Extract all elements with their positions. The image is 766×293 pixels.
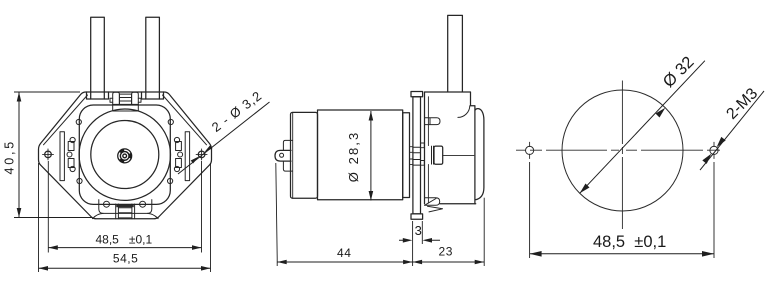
plate top cap bbox=[411, 92, 423, 97]
bottom rollers bbox=[104, 201, 110, 207]
tube right bbox=[146, 17, 160, 99]
dim 44 line bbox=[277, 261, 484, 263]
bottom clamp dark band bbox=[116, 205, 134, 207]
svg-text:Ø 32: Ø 32 bbox=[660, 53, 698, 91]
svg-text:44: 44 bbox=[337, 246, 352, 260]
left mount hole bbox=[526, 146, 534, 154]
tube seat right bbox=[142, 92, 164, 99]
svg-text:Ø 28,3: Ø 28,3 bbox=[346, 131, 361, 183]
top clamp ladder bbox=[119, 94, 131, 104]
right pin top bbox=[425, 118, 441, 125]
chamfer line upper-right bbox=[163, 95, 207, 145]
top clamp right post bbox=[132, 92, 139, 111]
chamfer line upper-left bbox=[44, 95, 88, 145]
face plate rounded square bbox=[79, 105, 170, 204]
head body bbox=[425, 92, 475, 204]
head inner fillet bbox=[458, 106, 470, 118]
bottom roller block bbox=[99, 200, 152, 214]
dim 48,5 line bbox=[48, 247, 201, 249]
corner screw TR bbox=[168, 119, 173, 124]
ext line 23 right bbox=[483, 198, 485, 266]
corner screw BR bbox=[168, 178, 173, 183]
plate rungs bbox=[413, 147, 421, 165]
right side rail bbox=[185, 132, 189, 181]
dim 40,5 line bbox=[18, 92, 20, 218]
bottom clamp bbox=[116, 204, 135, 219]
right ear hole crosshair bbox=[196, 149, 207, 160]
dim 54,5 extension lines bbox=[39, 163, 211, 272]
snap tab bbox=[428, 206, 443, 212]
terminal hole bbox=[280, 153, 284, 157]
plate right tabs bbox=[421, 143, 425, 148]
horizontal center line bbox=[516, 149, 720, 151]
outer circle bbox=[79, 109, 170, 200]
head inner wall bbox=[427, 97, 429, 203]
left side rail bbox=[60, 132, 64, 181]
right pin bottom bbox=[425, 198, 440, 206]
plate left studs bbox=[410, 147, 413, 153]
dim 40,5 extension lines bbox=[14, 92, 92, 218]
dimension drawing: left view bbox=[14, 92, 270, 272]
ext line 3 right bbox=[421, 221, 423, 244]
dim 28,3 line bbox=[370, 111, 372, 201]
brush cap top bbox=[283, 140, 292, 150]
shaft coupling bbox=[434, 146, 443, 164]
plate bottom cap bbox=[411, 214, 423, 219]
leader 2-O3,2 bbox=[178, 102, 270, 174]
head cover bbox=[475, 106, 484, 204]
dim 3 arrows bbox=[399, 239, 440, 241]
shaft center line bbox=[443, 154, 474, 156]
dim 48,5 right line bbox=[530, 253, 714, 255]
right ear hole bbox=[198, 151, 205, 158]
right clamp yoke bbox=[174, 137, 182, 171]
ext line middle (plate left) bbox=[412, 221, 414, 266]
tube left bbox=[91, 17, 105, 99]
dia 32 dim line bbox=[580, 61, 705, 194]
dim 54,5 line bbox=[39, 267, 211, 269]
svg-text:48,5 ±0,1: 48,5 ±0,1 bbox=[593, 233, 666, 251]
mounting plate bbox=[413, 97, 421, 214]
bottom skirt curves bbox=[93, 213, 159, 218]
rotor hub bbox=[117, 148, 132, 163]
ext line 44 left (from lug) bbox=[276, 163, 277, 266]
svg-text:54,5: 54,5 bbox=[113, 251, 138, 265]
left ear hole bbox=[45, 151, 52, 158]
inner circle bbox=[91, 121, 159, 189]
vertical center line bbox=[621, 81, 623, 230]
svg-text:3: 3 bbox=[415, 223, 422, 238]
svg-text:48,5 ±0,1: 48,5 ±0,1 bbox=[96, 232, 153, 246]
leader 2-M3 bbox=[700, 91, 764, 170]
motor body bbox=[318, 110, 403, 200]
dim 48,5 right ext lines bbox=[530, 162, 714, 258]
right mount hole bbox=[710, 146, 718, 154]
corner screw TL bbox=[76, 119, 81, 124]
dim 48,5 extension lines bbox=[48, 161, 201, 253]
top clamp bottom bar bbox=[113, 104, 139, 111]
pump plate (diamond) bbox=[39, 92, 212, 219]
svg-text:23: 23 bbox=[439, 244, 454, 258]
top clamp left post bbox=[113, 92, 120, 111]
motor end cap bbox=[291, 112, 318, 198]
left ear hole crosshair bbox=[43, 149, 54, 160]
brush cap bottom bbox=[283, 161, 292, 171]
terminal lug bbox=[275, 150, 291, 161]
shaft collar bbox=[432, 146, 434, 164]
tube seat left bbox=[87, 92, 109, 99]
dim 23 arrows bbox=[413, 260, 423, 265]
pump tube (side) bbox=[448, 15, 463, 91]
motor boss bbox=[403, 113, 410, 198]
left clamp yoke bbox=[67, 137, 75, 171]
dimensions middle view bbox=[276, 111, 484, 266]
top clamp wings bbox=[110, 98, 141, 102]
svg-text:40,5: 40,5 bbox=[2, 139, 16, 175]
corner screw BL bbox=[77, 178, 82, 183]
big circle bbox=[562, 90, 683, 211]
head bottom edge bbox=[440, 203, 476, 205]
